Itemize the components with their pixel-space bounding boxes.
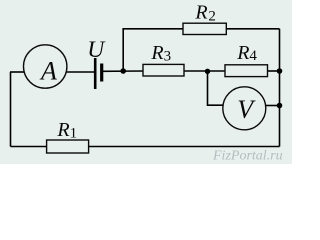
wire: bottom rail (11, 146, 280, 148)
resistor R3 box (143, 64, 184, 76)
wire: battery to R3 (through junction) (102, 70, 144, 72)
resistor R4 box (225, 65, 268, 77)
wire: riser from junction up to top rail (122, 29, 124, 71)
resistor R2 box (183, 23, 226, 34)
wire: left vertical from ammeter corner down to bottom rail (10, 72, 12, 147)
node junction dot (R4/right rail) (277, 68, 283, 74)
resistor R1 box (47, 140, 89, 153)
ammeter U1 circle (24, 45, 67, 88)
voltmeter U2 circle (223, 87, 266, 130)
svg-text:A: A (39, 56, 57, 85)
battery U long plate (94, 58, 97, 89)
wire: R4 to right rail (267, 70, 280, 72)
svg-text:U: U (87, 37, 106, 63)
wire: voltmeter right stub to right rail (266, 105, 280, 107)
wire: ammeter right to battery (67, 71, 95, 73)
node junction dot (R3/R4/voltmeter) (205, 69, 210, 74)
node junction dot (voltmeter/right rail) (277, 103, 283, 109)
svg-text:FizPortal.ru: FizPortal.ru (212, 149, 283, 164)
wire: right vertical rail (279, 29, 281, 147)
battery U short plate (100, 64, 103, 82)
node junction dot (battery/R3/riser) (120, 68, 126, 74)
wire: R3 to R4 (183, 70, 226, 72)
wire: stub into ammeter left (10, 71, 24, 73)
wire: top rail with R2 (122, 28, 279, 30)
wire: voltmeter branch down and right (208, 72, 224, 106)
